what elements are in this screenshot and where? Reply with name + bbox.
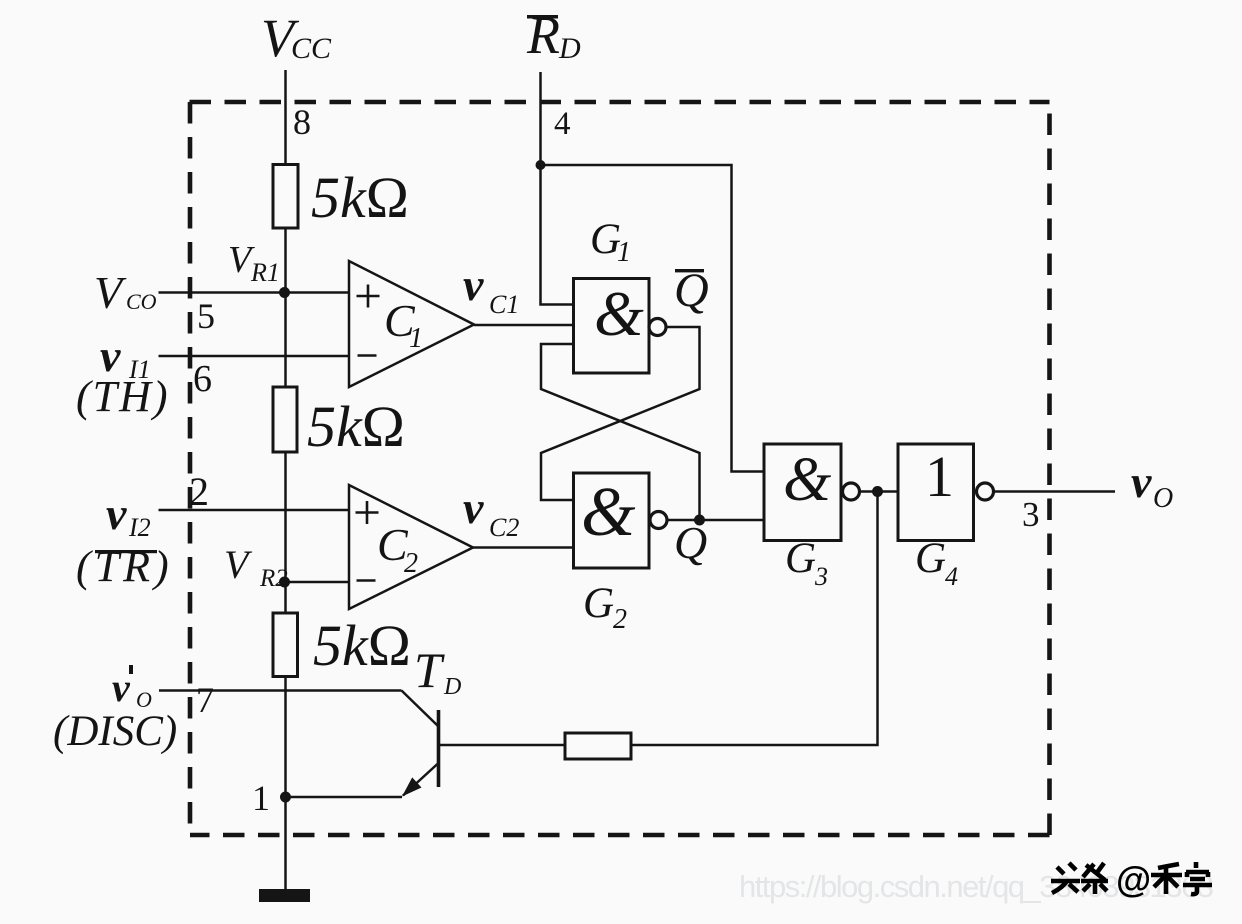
svg-text:v: v	[463, 259, 484, 310]
wire between upper resistor and node VR1	[284, 228, 287, 387]
dashed IC boundary box left	[188, 102, 193, 835]
comparator C2 minus input sign	[357, 579, 376, 582]
nand gate G1 box	[574, 279, 650, 374]
svg-text:D: D	[443, 674, 461, 700]
resistor R lower 5k ohm	[273, 613, 298, 677]
junction node VR2	[279, 577, 290, 588]
transistor TD collector lead	[402, 691, 439, 727]
svg-text:G: G	[785, 535, 816, 582]
inverter gate G4 box	[898, 444, 974, 541]
comparator C2 plus input sign	[356, 501, 379, 524]
resistor base of TD	[565, 733, 631, 759]
comparator C1 plus input sign	[357, 285, 380, 308]
prime mark of vO'	[129, 665, 133, 674]
junction node pin1 emitter	[280, 792, 291, 803]
svg-text:1: 1	[617, 237, 631, 268]
svg-text:7: 7	[196, 680, 214, 720]
junction node VR1	[279, 287, 290, 298]
wire node VR2 to comparator C2 inverting input	[285, 581, 349, 584]
svg-text:2: 2	[404, 548, 418, 579]
wire Q output node cross-coupled to G1 input	[541, 344, 700, 520]
glyph yu	[1183, 862, 1212, 894]
svg-text:R: R	[526, 5, 560, 65]
wire input vI1 TH pin 6	[159, 355, 350, 358]
svg-text:v: v	[463, 482, 484, 533]
glyph tou	[1051, 863, 1080, 893]
svg-text:G: G	[583, 580, 614, 627]
svg-text:1: 1	[252, 778, 270, 818]
svg-text:(DISC): (DISC)	[53, 708, 177, 755]
svg-text:CO: CO	[126, 289, 157, 314]
wire base resistor to transistor TD base	[440, 744, 565, 747]
glyph he	[1151, 864, 1182, 894]
op-amp comparator C1	[349, 261, 474, 387]
resistor R upper 5k ohm	[273, 165, 298, 229]
overline of Qbar	[675, 269, 704, 272]
svg-text:Q: Q	[674, 517, 707, 568]
svg-text:5kΩ: 5kΩ	[307, 394, 405, 459]
svg-text:1: 1	[925, 444, 954, 509]
svg-text:T: T	[414, 642, 445, 698]
wire VCC vertical pin 8 into resistor chain	[284, 70, 287, 165]
wire input VCO pin 5	[159, 291, 350, 294]
glyph tiao	[1081, 863, 1108, 894]
svg-text:&: &	[581, 474, 636, 551]
transistor TD emitter arrowhead	[402, 777, 422, 796]
svg-text:4: 4	[554, 106, 571, 142]
svg-text:G: G	[915, 535, 946, 582]
dashed IC boundary box right	[1047, 102, 1052, 835]
svg-text:v: v	[106, 488, 127, 539]
gate G4 output inversion bubble	[977, 483, 994, 500]
dashed IC boundary box bottom	[190, 833, 1050, 838]
watermark author badge	[1051, 863, 1108, 894]
junction node Q output	[694, 515, 705, 526]
wire RD-bar branch to gate G3 top input	[541, 165, 765, 472]
wire Qbar output from G1 cross-coupled to G2 input	[541, 327, 700, 500]
svg-text:&: &	[594, 278, 644, 349]
svg-text:V: V	[94, 267, 127, 318]
svg-text:1: 1	[409, 323, 423, 354]
svg-text:(TH): (TH)	[76, 372, 170, 421]
ground symbol bar	[259, 889, 310, 902]
transistor TD emitter lead	[403, 763, 439, 796]
svg-text:R2: R2	[259, 565, 288, 592]
svg-text:R1: R1	[250, 258, 280, 287]
svg-text:@: @	[1116, 859, 1151, 900]
svg-text:6: 6	[193, 358, 212, 400]
svg-text:4: 4	[945, 562, 958, 591]
svg-text:5kΩ: 5kΩ	[311, 165, 409, 230]
svg-text:(TR): (TR)	[76, 542, 173, 591]
svg-text:8: 8	[293, 102, 311, 142]
wire comparator C1 output vC1 to gate G1	[474, 324, 574, 327]
svg-text:I2: I2	[128, 513, 151, 542]
gate G3 output inversion bubble	[843, 483, 860, 500]
dashed IC boundary box top	[190, 100, 1050, 105]
svg-text:C2: C2	[489, 513, 519, 542]
wire G3 output to G4 input	[859, 490, 898, 493]
wire G2 output Q to gate G3	[667, 519, 765, 522]
wire RD-bar vertical pin 4 down to gate G1 input	[541, 72, 574, 305]
wire input vI2 TR pin 2	[159, 509, 350, 512]
wire emitter to ground node pin 1	[286, 796, 403, 799]
svg-text:D: D	[558, 32, 581, 65]
op-amp comparator C2	[349, 485, 473, 609]
wire G4 output vO pin 3	[994, 490, 1116, 493]
svg-text:5: 5	[197, 296, 215, 336]
svg-text:2: 2	[189, 469, 209, 514]
junction node RD branch	[536, 160, 546, 170]
transistor TD base bar	[437, 710, 441, 787]
svg-text:5kΩ: 5kΩ	[313, 613, 411, 678]
svg-text:C1: C1	[489, 290, 519, 319]
svg-text:v: v	[112, 665, 131, 710]
svg-text:CC: CC	[291, 32, 332, 65]
junction node G3-G4 feedback	[872, 486, 883, 497]
svg-text:2: 2	[613, 604, 627, 635]
svg-text:&: &	[783, 446, 831, 514]
svg-text:V: V	[224, 542, 253, 587]
nand gate G3 box	[764, 444, 841, 541]
overline of TR in label	[95, 550, 157, 553]
svg-text:O: O	[1153, 483, 1173, 514]
comparator C1 minus input sign	[358, 354, 377, 357]
svg-text:v: v	[1131, 456, 1152, 507]
wire between middle resistor and node VR2	[284, 452, 287, 613]
wire lower resistor to ground through pin 1	[284, 677, 287, 890]
wire comparator C2 output vC2 to gate G2	[473, 546, 574, 549]
svg-text:3: 3	[1022, 495, 1040, 534]
wire input vO' DISC pin 7 to transistor collector	[159, 689, 402, 692]
wire feedback from G4 input node down to base resistor	[631, 492, 878, 746]
svg-text:3: 3	[814, 562, 828, 591]
nand gate G2 box	[574, 473, 650, 568]
gate G2 output inversion bubble	[650, 512, 667, 529]
gate G1 output inversion bubble	[649, 319, 666, 336]
resistor R middle 5k ohm	[273, 387, 297, 452]
overline of RD-bar	[527, 15, 558, 19]
